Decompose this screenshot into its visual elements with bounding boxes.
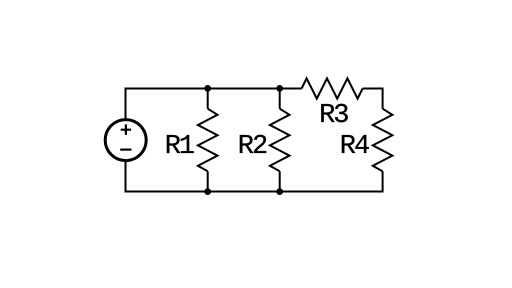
junction node A (R1 top) bbox=[204, 85, 211, 92]
wire bottom right: node D to R4 bottom bbox=[280, 171, 383, 191]
resistor R1 zigzag bbox=[198, 109, 218, 172]
junction node C (R1 bottom) bbox=[204, 188, 211, 195]
resistor R4 zigzag bbox=[373, 109, 393, 172]
svg-text:R4: R4 bbox=[340, 132, 369, 162]
svg-text:R2: R2 bbox=[238, 132, 267, 162]
junction node B (R2 top) bbox=[276, 85, 283, 92]
svg-text:R1: R1 bbox=[165, 132, 194, 162]
wire: R3 right lead to top-right corner down to R4 bbox=[363, 89, 383, 109]
wire R1 bottom lead bbox=[207, 171, 209, 191]
wire: node B to R3 left lead bbox=[280, 88, 302, 90]
resistor R3 zigzag bbox=[302, 78, 363, 98]
wire R2 top lead bbox=[279, 89, 281, 109]
junction node D (R2 bottom) bbox=[276, 188, 283, 195]
wire R1 top lead bbox=[207, 89, 209, 109]
wire top left: source top to node A bbox=[126, 89, 208, 120]
wire top: node A to node B bbox=[208, 88, 280, 90]
wire bottom left: source bottom to node C bbox=[126, 161, 208, 192]
voltage source V1 circle bbox=[105, 120, 146, 161]
wire R2 bottom lead bbox=[279, 171, 281, 191]
voltage source minus sign bbox=[120, 149, 131, 151]
svg-text:R3: R3 bbox=[319, 101, 348, 131]
voltage source plus sign bbox=[121, 124, 131, 134]
resistor R2 zigzag bbox=[270, 109, 290, 172]
wire bottom: node C to node D bbox=[208, 191, 280, 193]
